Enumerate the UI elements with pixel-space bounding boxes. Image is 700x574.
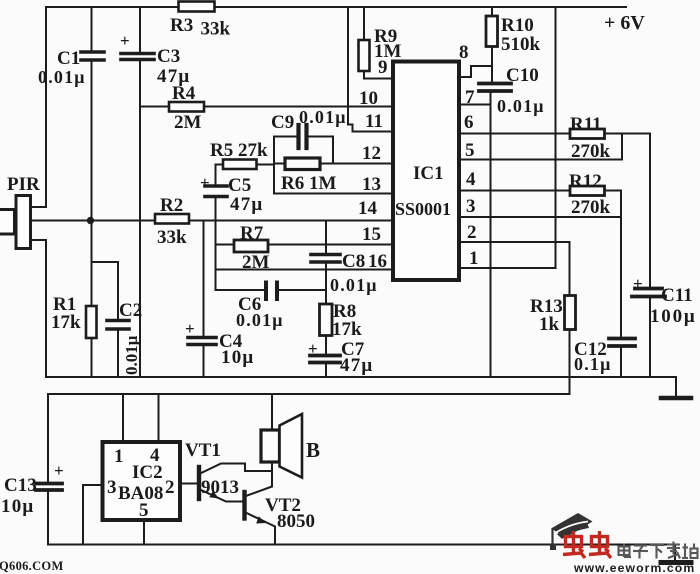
- svg-text:9: 9: [378, 57, 388, 78]
- svg-text:8050: 8050: [277, 511, 315, 532]
- capacitor C13: [36, 394, 62, 545]
- svg-text:13: 13: [362, 174, 381, 195]
- svg-text:1k: 1k: [539, 314, 560, 335]
- wire lower section bottom: [48, 544, 675, 546]
- svg-text:+: +: [185, 319, 195, 338]
- svg-text:4: 4: [150, 445, 160, 466]
- svg-text:47μ: 47μ: [230, 194, 263, 215]
- speaker B: [261, 394, 302, 478]
- svg-text:C5: C5: [228, 175, 251, 196]
- svg-text:+: +: [633, 274, 643, 293]
- svg-text:10μ: 10μ: [1, 496, 34, 517]
- wire rail to pin 10/11: [348, 7, 393, 132]
- wire ground rail upper: [46, 376, 676, 378]
- svg-text:R3: R3: [170, 15, 193, 36]
- wire C10 to ground rail: [490, 92, 492, 377]
- svg-text:C1: C1: [57, 48, 80, 69]
- resistor R11: [459, 129, 650, 139]
- wire pin 2 to R13: [459, 242, 570, 296]
- wire pin 7: [459, 104, 491, 106]
- svg-text:B: B: [306, 438, 320, 462]
- label R8 value: [332, 301, 362, 340]
- label C7 value: [308, 339, 373, 376]
- capacitor C4: [188, 221, 216, 378]
- wire +6V top rail: [46, 6, 626, 8]
- svg-text:R4: R4: [172, 83, 196, 104]
- resistor R3: [179, 2, 215, 12]
- label R12 value: [569, 171, 611, 218]
- wire pin 16: [216, 269, 394, 271]
- transistor VT1 9013: [199, 464, 272, 502]
- wire pin 3 return: [459, 191, 621, 338]
- capacitor C6: [216, 283, 327, 300]
- capacitor C7: [310, 356, 340, 378]
- wire IC2 pin 4: [158, 394, 160, 442]
- svg-text:27k: 27k: [238, 140, 268, 161]
- svg-text:C11: C11: [661, 285, 693, 306]
- wire pin 8: [459, 66, 492, 77]
- svg-text:3: 3: [107, 477, 117, 498]
- wire IC2 pin 5: [143, 520, 145, 545]
- svg-text:1: 1: [469, 248, 479, 269]
- svg-text:VT1: VT1: [185, 440, 221, 461]
- svg-text:R5: R5: [210, 140, 233, 161]
- label C5 value: [200, 173, 263, 215]
- label C2 value: [119, 300, 142, 375]
- svg-text:270k: 270k: [571, 141, 611, 162]
- svg-text:C13: C13: [4, 475, 37, 496]
- label C8 value: [330, 251, 378, 295]
- svg-text:C3: C3: [157, 46, 180, 67]
- svg-text:2: 2: [467, 222, 477, 243]
- capacitor C12: [609, 339, 635, 378]
- svg-text:1: 1: [114, 446, 124, 467]
- resistor R1: [86, 223, 97, 377]
- svg-text:R12: R12: [569, 171, 602, 192]
- watermark graduation cap icon: [550, 513, 593, 550]
- svg-text:C10: C10: [506, 65, 539, 86]
- svg-text:510k: 510k: [501, 34, 541, 55]
- svg-text:www.eeworm.com: www.eeworm.com: [573, 561, 695, 574]
- label R10 value: [501, 15, 541, 55]
- svg-text:7: 7: [465, 87, 475, 108]
- svg-text:0.01μ: 0.01μ: [299, 107, 347, 127]
- wire IC2 pin 1: [122, 394, 124, 442]
- svg-text:0.01μ: 0.01μ: [330, 275, 378, 295]
- svg-text:R7: R7: [240, 223, 264, 244]
- svg-text:2M: 2M: [174, 112, 202, 133]
- svg-text:+ 6V: + 6V: [604, 12, 645, 34]
- label C4 value: [185, 319, 254, 368]
- resistor R10: [486, 7, 498, 82]
- svg-text:14: 14: [358, 198, 378, 219]
- label C1 value: [38, 48, 86, 87]
- label R5 value: [210, 140, 268, 161]
- svg-text:17k: 17k: [332, 319, 362, 340]
- label C9 value: [271, 107, 347, 133]
- svg-text:10μ: 10μ: [221, 347, 254, 368]
- node junction dot: [87, 217, 94, 224]
- capacitor C3: [121, 7, 154, 377]
- svg-text:5: 5: [465, 140, 475, 161]
- svg-text:16: 16: [368, 251, 387, 272]
- svg-text:+: +: [54, 461, 64, 480]
- label R9 value: [374, 26, 402, 62]
- wire pin 1 to +6V: [459, 7, 556, 268]
- wire IC2 pin 2 to VT1 base: [180, 483, 197, 485]
- svg-text:17k: 17k: [51, 312, 81, 333]
- watermark dianzixiazaizhan grey characters: [619, 542, 698, 559]
- svg-text:R10: R10: [501, 15, 534, 36]
- label C3 value: [120, 31, 190, 87]
- label R7 value: [240, 223, 270, 273]
- svg-text:10: 10: [359, 88, 378, 109]
- svg-text:C2: C2: [119, 300, 142, 321]
- label R1 value: [51, 294, 81, 333]
- IC2 BA08: [103, 442, 181, 520]
- svg-text:R6 1M: R6 1M: [281, 173, 336, 194]
- wire pin 12: [333, 163, 393, 165]
- svg-text:C8: C8: [342, 251, 365, 272]
- svg-text:12: 12: [362, 143, 381, 164]
- ground symbol lower right: [661, 545, 691, 563]
- resistor R2: [155, 214, 189, 224]
- svg-text:0.1μ: 0.1μ: [574, 354, 612, 374]
- svg-text:+: +: [308, 339, 318, 358]
- resistor R5: [216, 160, 275, 170]
- svg-text:5: 5: [139, 500, 149, 521]
- svg-text:15: 15: [362, 224, 381, 245]
- svg-text:2M: 2M: [242, 252, 270, 273]
- svg-text:+: +: [200, 173, 210, 192]
- wire pin 13: [274, 193, 393, 195]
- resistor R8: [320, 290, 333, 354]
- wire PIR output line to pin 14: [32, 220, 393, 222]
- svg-text:3: 3: [466, 196, 476, 217]
- svg-text:0.01μ: 0.01μ: [38, 67, 86, 87]
- wire left edge upper (rail to PIR drain): [32, 7, 46, 207]
- label R13 value: [530, 296, 563, 335]
- label C13 value: [1, 461, 64, 517]
- ground symbol upper right: [661, 377, 691, 398]
- resistor R7: [216, 240, 394, 252]
- resistor R13: [565, 296, 576, 395]
- wire pin 5 return: [459, 134, 622, 160]
- svg-text:6: 6: [464, 112, 474, 133]
- svg-text:100μ: 100μ: [650, 306, 696, 327]
- svg-text:+: +: [120, 31, 130, 50]
- svg-text:33k: 33k: [201, 19, 231, 40]
- capacitor C1: [81, 7, 104, 218]
- svg-text:PIR: PIR: [7, 174, 40, 195]
- label R3 value: [170, 15, 231, 40]
- label C10 value: [497, 65, 545, 116]
- capacitor C10: [479, 84, 511, 92]
- svg-text:33k: 33k: [157, 227, 187, 248]
- capacitor C8: [311, 221, 340, 291]
- PIR sensor: [0, 196, 31, 249]
- svg-text:2: 2: [165, 477, 175, 498]
- capacitor C5: [205, 165, 227, 291]
- watermark chongchong red characters: [563, 531, 611, 558]
- svg-text:270k: 270k: [571, 197, 611, 218]
- capacitor C2: [92, 262, 130, 377]
- label R4 value: [172, 83, 202, 133]
- resistor R12: [459, 186, 621, 196]
- svg-text:47μ: 47μ: [340, 355, 373, 376]
- label C11 value: [633, 274, 696, 327]
- label R2 value: [157, 195, 187, 248]
- wire IC2 pin 3: [83, 485, 103, 545]
- svg-text:R11: R11: [570, 114, 602, 135]
- label C6 value: [236, 294, 284, 330]
- capacitor C11: [632, 134, 665, 378]
- svg-text:0.01μ: 0.01μ: [497, 96, 545, 116]
- svg-text:0.01μ: 0.01μ: [122, 335, 141, 375]
- svg-text:IC1: IC1: [413, 163, 444, 184]
- resistor R6: [274, 137, 333, 194]
- capacitor C9: [274, 125, 333, 148]
- label R11 value: [570, 114, 611, 162]
- svg-text:C9: C9: [271, 112, 294, 133]
- svg-text:4: 4: [466, 169, 476, 190]
- svg-text:Q606.COM: Q606.COM: [0, 559, 64, 573]
- transistor VT2 8050: [245, 471, 276, 545]
- svg-text:R2: R2: [160, 195, 183, 216]
- wire PIR source to ground rail: [32, 240, 46, 377]
- resistor R4: [140, 102, 393, 112]
- svg-text:0.01μ: 0.01μ: [236, 310, 284, 330]
- svg-text:11: 11: [365, 111, 383, 132]
- svg-text:8: 8: [459, 42, 469, 63]
- op-amp IC1 SS0001: [393, 62, 459, 281]
- resistor R9: [359, 7, 394, 79]
- svg-text:9013: 9013: [201, 477, 239, 498]
- svg-text:SS0001: SS0001: [395, 199, 451, 219]
- wire lower section top: [48, 393, 570, 395]
- label C12 value: [574, 339, 612, 374]
